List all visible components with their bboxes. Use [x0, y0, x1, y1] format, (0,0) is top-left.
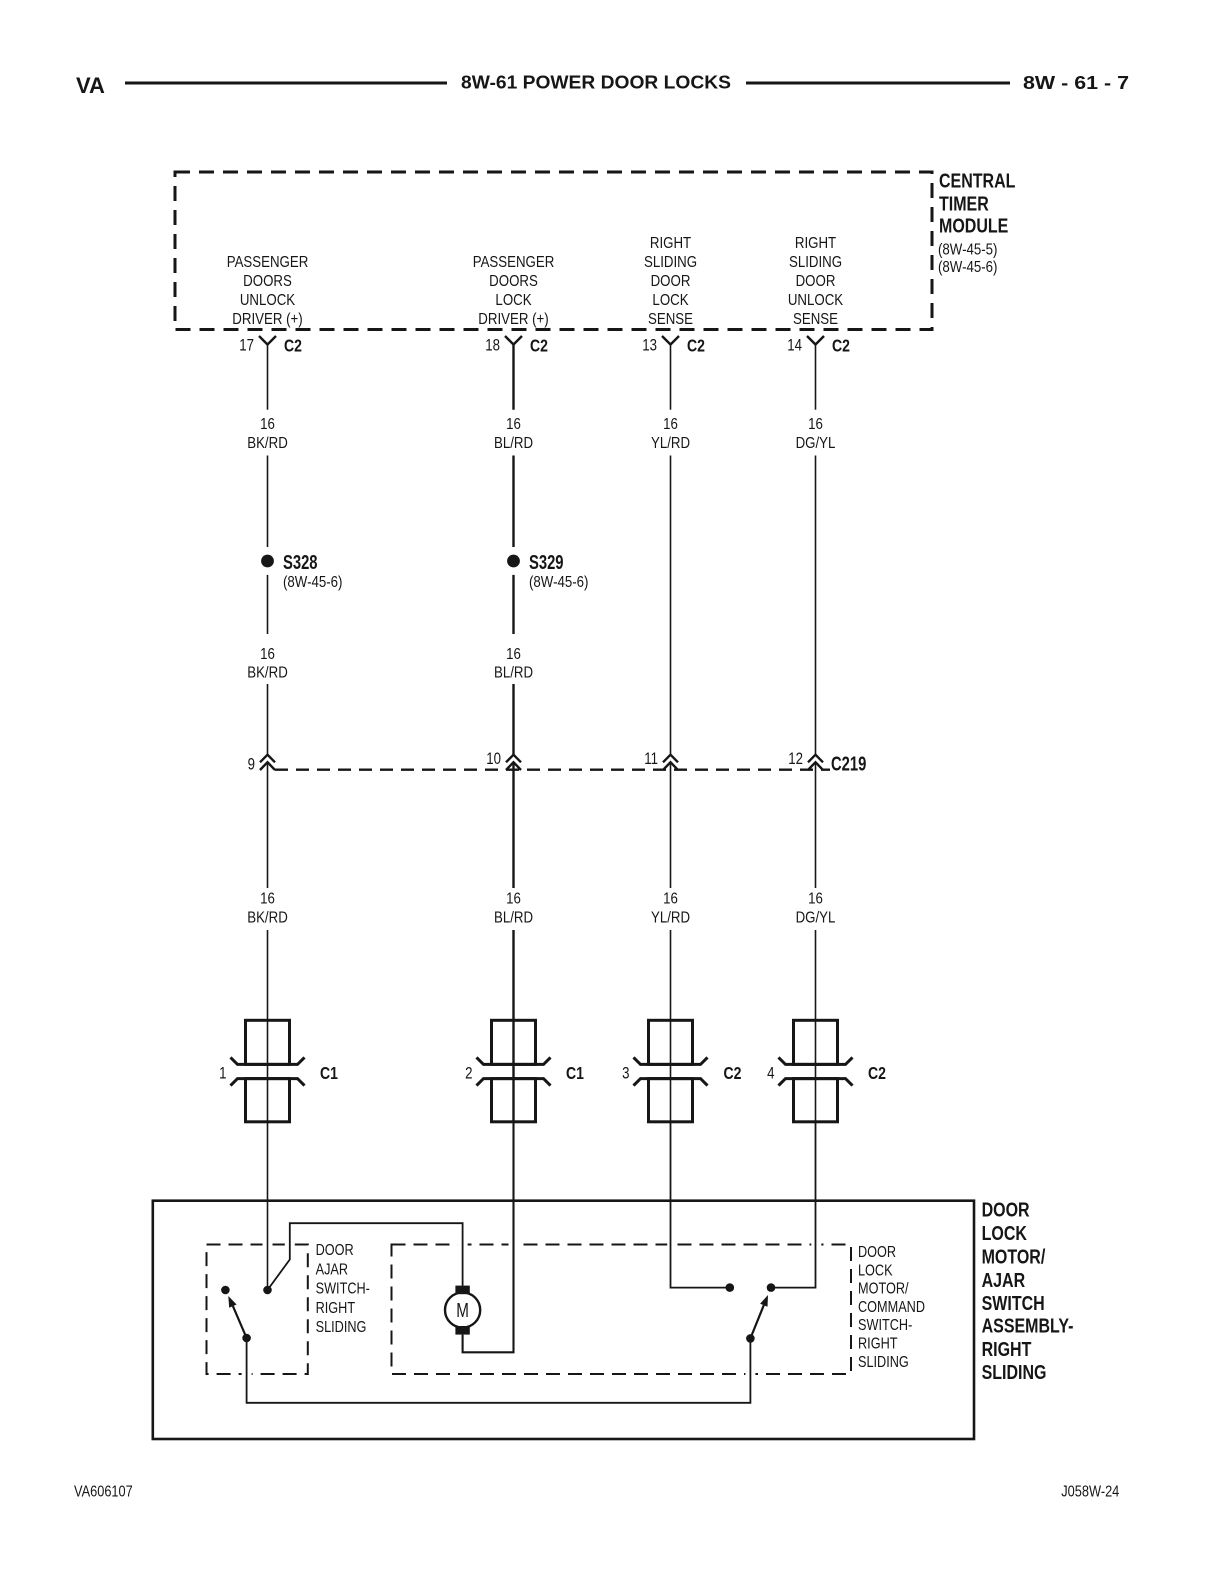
wire BK/RD: label to connector C1 [267, 930, 269, 1020]
wire DG/YL: C2-4 to command switch contact [771, 1122, 816, 1288]
connector C219 pin 9 chevron [248, 755, 275, 774]
wire BL/RD: C1-2 to motor negative terminal [463, 1122, 514, 1352]
svg-text:(8W-45-6): (8W-45-6) [529, 574, 588, 591]
svg-text:16: 16 [506, 890, 521, 907]
wire DG/YL: label to connector C2 [815, 930, 817, 1020]
svg-text:SWITCH: SWITCH [982, 1292, 1045, 1314]
wire BL/RD: CTM pin18 to label gap [512, 345, 514, 410]
svg-text:DG/YL: DG/YL [796, 435, 836, 452]
wire label 16 BK/RD (lower) [247, 890, 288, 926]
svg-text:2: 2 [465, 1064, 472, 1083]
node label: right sliding door lock sense [644, 235, 697, 328]
svg-text:PASSENGER: PASSENGER [227, 254, 309, 271]
svg-text:RIGHT: RIGHT [858, 1335, 898, 1352]
wire: ajar switch contact B to motor positive terminal [268, 1223, 463, 1290]
svg-text:PASSENGER: PASSENGER [473, 254, 555, 271]
svg-text:DOORS: DOORS [243, 273, 292, 290]
svg-text:VA606107: VA606107 [74, 1483, 133, 1501]
svg-text:16: 16 [506, 646, 521, 663]
svg-text:CENTRAL: CENTRAL [939, 170, 1015, 192]
svg-text:SENSE: SENSE [648, 311, 693, 328]
motor M1 [445, 1286, 480, 1335]
wire YL/RD: label to connector C2 [670, 930, 672, 1020]
svg-text:UNLOCK: UNLOCK [240, 292, 295, 309]
splice S329 [507, 551, 588, 592]
svg-text:DOOR: DOOR [796, 273, 836, 290]
svg-text:C2: C2 [724, 1063, 742, 1083]
wire label 16 DG/YL (upper) [796, 416, 836, 452]
wire label 16 BL/RD (lower) [494, 890, 533, 926]
svg-text:(8W-45-6): (8W-45-6) [283, 574, 342, 591]
svg-text:SLIDING: SLIDING [789, 254, 842, 271]
connector C1 pin 1 [219, 1020, 338, 1122]
wire BK/RD: label to splice S328 [267, 456, 269, 548]
wire BL/RD: label to C219 chevron [512, 684, 514, 755]
door ajar switch dashed box [207, 1241, 308, 1378]
connector C2 pin 4 [767, 1020, 886, 1122]
wire BL/RD: label to connector C1 [512, 930, 514, 1020]
svg-text:16: 16 [663, 890, 678, 907]
wire label 16 DG/YL (lower) [796, 890, 836, 926]
svg-text:16: 16 [260, 646, 275, 663]
connector C2 pin 14 [787, 336, 850, 356]
wire DG/YL: CTM pin14 to label gap [815, 345, 817, 410]
wire BL/RD: S329 to lower label [512, 575, 514, 634]
svg-text:1: 1 [219, 1064, 226, 1083]
wire BK/RD: S328 to lower label [267, 575, 269, 634]
svg-text:RIGHT: RIGHT [650, 235, 691, 252]
svg-text:DOOR: DOOR [651, 273, 691, 290]
wire BK/RD: CTM pin17 to label gap [267, 345, 269, 410]
door lock motor/command switch label [858, 1244, 925, 1371]
svg-text:RIGHT: RIGHT [795, 235, 836, 252]
svg-text:BL/RD: BL/RD [494, 909, 533, 926]
svg-text:11: 11 [644, 750, 658, 769]
wire: switch commons bus [247, 1338, 751, 1403]
svg-text:13: 13 [642, 336, 657, 355]
wire DG/YL: C219 to lower label [815, 763, 817, 888]
svg-text:TIMER: TIMER [939, 193, 989, 215]
svg-text:DOOR: DOOR [982, 1199, 1030, 1221]
wire DG/YL: label to C219 chevron [815, 456, 817, 755]
footer [74, 1483, 1119, 1501]
wire YL/RD: C219 to lower label [670, 763, 672, 888]
wire YL/RD: C2-3 to command switch contact [671, 1122, 730, 1288]
assembly name label [982, 1199, 1074, 1384]
door lock command switch SW2 [726, 1283, 776, 1342]
svg-text:ASSEMBLY-: ASSEMBLY- [982, 1315, 1074, 1337]
connector C1 pin 2 [465, 1020, 584, 1122]
connector C219 pin 12 chevron [788, 750, 823, 770]
splice S328 [261, 551, 342, 592]
svg-text:LOCK: LOCK [982, 1222, 1027, 1244]
svg-text:RIGHT: RIGHT [982, 1338, 1032, 1360]
svg-text:SLIDING: SLIDING [858, 1354, 909, 1371]
svg-text:LOCK: LOCK [652, 292, 688, 309]
svg-text:BL/RD: BL/RD [494, 435, 533, 452]
svg-text:C2: C2 [832, 336, 850, 356]
wire YL/RD: label to C219 chevron [670, 456, 672, 755]
svg-text:8W-61 POWER DOOR LOCKS: 8W-61 POWER DOOR LOCKS [461, 73, 731, 93]
svg-text:16: 16 [260, 416, 275, 433]
svg-text:S328: S328 [283, 551, 318, 574]
svg-text:C219: C219 [831, 752, 867, 775]
svg-text:BK/RD: BK/RD [247, 909, 288, 926]
svg-text:MOTOR/: MOTOR/ [858, 1280, 909, 1297]
central timer module name label [938, 170, 1015, 277]
svg-text:SLIDING: SLIDING [644, 254, 697, 271]
connector C219 pin 11 chevron [644, 750, 678, 770]
svg-text:17: 17 [239, 336, 254, 355]
svg-text:3: 3 [622, 1064, 629, 1083]
wire label 16 BK/RD (upper) [247, 416, 288, 452]
svg-text:(8W-45-5): (8W-45-5) [938, 242, 997, 259]
wire YL/RD: CTM pin13 to label gap [670, 345, 672, 410]
svg-text:S329: S329 [529, 551, 564, 574]
svg-text:16: 16 [506, 416, 521, 433]
wire BL/RD: C219 to lower label [512, 763, 514, 888]
wire label 16 BL/RD (upper) [494, 416, 533, 452]
wire BK/RD: label to C219 chevron [267, 684, 269, 755]
svg-text:16: 16 [663, 416, 678, 433]
node label: passenger doors unlock driver (+) [227, 254, 309, 328]
svg-text:DOOR: DOOR [858, 1244, 896, 1261]
door lock motor/ajar switch assembly box [153, 1201, 974, 1439]
wire label 16 YL/RD (lower) [651, 890, 690, 926]
svg-text:J058W-24: J058W-24 [1061, 1483, 1119, 1501]
door lock motor/command switch dashed box [392, 1241, 852, 1378]
wire BL/RD: label to splice S329 [512, 456, 514, 548]
svg-text:YL/RD: YL/RD [651, 909, 690, 926]
svg-text:DRIVER (+): DRIVER (+) [478, 311, 548, 328]
header [76, 73, 1129, 99]
svg-text:16: 16 [260, 890, 275, 907]
svg-text:BK/RD: BK/RD [247, 435, 288, 452]
wire BK/RD: C219 to lower label [267, 763, 269, 888]
svg-text:LOCK: LOCK [858, 1262, 893, 1279]
svg-text:C2: C2 [284, 336, 302, 356]
svg-text:12: 12 [788, 750, 803, 769]
svg-text:VA: VA [76, 73, 105, 98]
svg-text:DG/YL: DG/YL [796, 909, 836, 926]
svg-text:RIGHT: RIGHT [316, 1300, 356, 1317]
node label: right sliding door unlock sense [788, 235, 843, 328]
wire label 16 YL/RD (upper) [651, 416, 690, 452]
wire BK/RD: C1-1 to door ajar switch contact [267, 1122, 269, 1290]
svg-text:DRIVER (+): DRIVER (+) [232, 311, 302, 328]
svg-text:YL/RD: YL/RD [651, 435, 690, 452]
svg-text:AJAR: AJAR [316, 1261, 348, 1278]
svg-text:SENSE: SENSE [793, 311, 838, 328]
svg-text:16: 16 [808, 416, 823, 433]
svg-text:4: 4 [767, 1064, 775, 1083]
connector C2 pin 13 [642, 336, 705, 356]
door ajar switch SW1 [221, 1286, 272, 1343]
svg-text:LOCK: LOCK [495, 292, 531, 309]
svg-text:C1: C1 [566, 1063, 584, 1083]
wire label 16 BK/RD (mid) [247, 646, 288, 682]
svg-text:DOORS: DOORS [489, 273, 538, 290]
svg-text:DOOR: DOOR [316, 1242, 354, 1259]
svg-text:SWITCH-: SWITCH- [858, 1317, 913, 1334]
svg-text:8W - 61 - 7: 8W - 61 - 7 [1023, 73, 1129, 93]
connector C219 pin 10 chevron [486, 750, 521, 770]
connector C2 pin 3 [622, 1020, 741, 1122]
svg-text:18: 18 [485, 336, 500, 355]
svg-text:9: 9 [248, 755, 255, 774]
svg-text:COMMAND: COMMAND [858, 1299, 925, 1316]
svg-text:16: 16 [808, 890, 823, 907]
svg-text:C2: C2 [868, 1063, 886, 1083]
svg-text:MOTOR/: MOTOR/ [982, 1246, 1046, 1268]
svg-text:AJAR: AJAR [982, 1269, 1026, 1291]
svg-text:UNLOCK: UNLOCK [788, 292, 843, 309]
svg-text:M: M [456, 1299, 469, 1322]
svg-text:SLIDING: SLIDING [982, 1361, 1047, 1383]
svg-text:(8W-45-6): (8W-45-6) [938, 259, 997, 276]
svg-text:BK/RD: BK/RD [247, 664, 288, 681]
connector C2 pin 18 [485, 336, 548, 356]
connector C219 dashed bus line [275, 769, 830, 771]
svg-text:C1: C1 [320, 1063, 338, 1083]
wire label 16 BL/RD (mid) [494, 646, 533, 682]
svg-text:SWITCH-: SWITCH- [316, 1280, 371, 1297]
door ajar switch label [316, 1242, 371, 1337]
svg-text:14: 14 [787, 336, 802, 355]
svg-text:BL/RD: BL/RD [494, 664, 533, 681]
svg-text:C2: C2 [687, 336, 705, 356]
node label: passenger doors lock driver (+) [473, 254, 555, 328]
svg-text:10: 10 [486, 750, 501, 769]
central timer module box [175, 172, 932, 330]
svg-text:SLIDING: SLIDING [316, 1319, 367, 1336]
svg-text:MODULE: MODULE [939, 215, 1008, 237]
svg-text:C2: C2 [530, 336, 548, 356]
connector C2 pin 17 [239, 336, 302, 356]
